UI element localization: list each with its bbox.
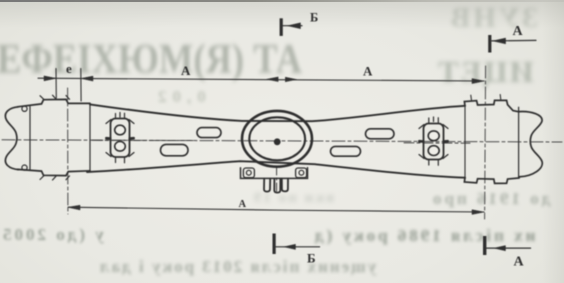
arrow at right end of top dim bbox=[472, 79, 484, 84]
bracket right lug bbox=[296, 168, 307, 178]
section marker А top-right bbox=[488, 35, 491, 53]
centerline left kingpin bbox=[67, 88, 69, 214]
tick marks left block top bbox=[40, 95, 70, 99]
central boss outer circle bbox=[242, 111, 312, 167]
svg-text:Б: Б bbox=[310, 11, 318, 25]
top scan edge bbox=[0, 0, 564, 2]
right spring pad bbox=[424, 124, 444, 160]
tick marks left block bottom bbox=[40, 176, 70, 180]
centerline horizontal (beam axis) bbox=[2, 140, 562, 142]
bracket left lug bbox=[243, 168, 254, 178]
right pad centerline bbox=[404, 142, 470, 144]
svg-text:Б: Б bbox=[307, 251, 316, 266]
section line through boss bbox=[276, 167, 278, 194]
beam bottom edge bbox=[87, 161, 465, 178]
top dimension line bbox=[38, 78, 484, 81]
left pad centerline bbox=[92, 139, 193, 141]
arrow at e-right bbox=[81, 76, 93, 81]
svg-text:е: е bbox=[66, 61, 72, 76]
oblong slot upper-right bbox=[366, 129, 395, 139]
oblong slot lower-left bbox=[161, 144, 189, 155]
right block seam bbox=[518, 107, 520, 177]
centerline right kingpin bbox=[485, 66, 486, 219]
beam top edge bbox=[90, 104, 465, 121]
arrow bottom-left bbox=[68, 205, 80, 210]
section marker Б top bbox=[280, 18, 283, 36]
svg-text:А: А bbox=[181, 63, 191, 78]
left spring pad bbox=[111, 119, 130, 158]
left block seam bbox=[89, 104, 91, 171]
section marker Б bottom bbox=[273, 234, 276, 255]
right block inner edge bbox=[464, 106, 466, 177]
left block inner edge bbox=[29, 107, 31, 170]
left block small bosses bbox=[22, 106, 27, 111]
right end block outline bbox=[519, 111, 542, 176]
section marker А bottom-right bbox=[483, 236, 486, 255]
central dot bbox=[274, 138, 281, 145]
svg-text:А: А bbox=[513, 24, 524, 39]
bottom dimension line bbox=[68, 207, 484, 212]
left pad tick marks bbox=[116, 113, 125, 119]
extension line e-right bbox=[80, 69, 82, 102]
arrow bottom-right bbox=[472, 210, 484, 215]
bracket below boss bbox=[241, 168, 308, 179]
mid double arrowheads bbox=[267, 77, 279, 82]
oblong slot upper-left bbox=[197, 128, 221, 138]
teeth below bracket bbox=[264, 179, 270, 192]
oblong slot lower-right bbox=[331, 146, 361, 156]
right pad tick marks bbox=[429, 117, 439, 123]
ghost bleed-through text (mirrored) bbox=[0, 36, 258, 84]
svg-text:А: А bbox=[239, 199, 247, 210]
extension line e-left bbox=[55, 69, 57, 99]
central boss inner circle bbox=[249, 117, 305, 160]
svg-text:А: А bbox=[514, 255, 525, 270]
arrow at e-left bbox=[44, 76, 56, 81]
left end block outline bbox=[5, 107, 18, 170]
svg-text:А: А bbox=[363, 64, 373, 79]
tick marks right block top bbox=[471, 95, 501, 101]
